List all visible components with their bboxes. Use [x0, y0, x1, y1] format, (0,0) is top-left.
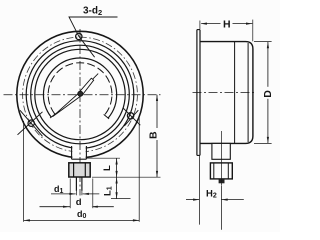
svg-text:L1: L1 — [103, 186, 114, 196]
svg-text:B: B — [147, 131, 159, 139]
svg-text:H2: H2 — [206, 188, 217, 199]
svg-text:L: L — [102, 165, 113, 171]
svg-text:H: H — [223, 19, 231, 31]
svg-text:3-d2: 3-d2 — [83, 6, 102, 17]
svg-text:D: D — [262, 90, 274, 98]
svg-text:d0: d0 — [77, 209, 87, 220]
svg-text:d: d — [76, 197, 82, 208]
svg-text:d1: d1 — [54, 184, 64, 195]
